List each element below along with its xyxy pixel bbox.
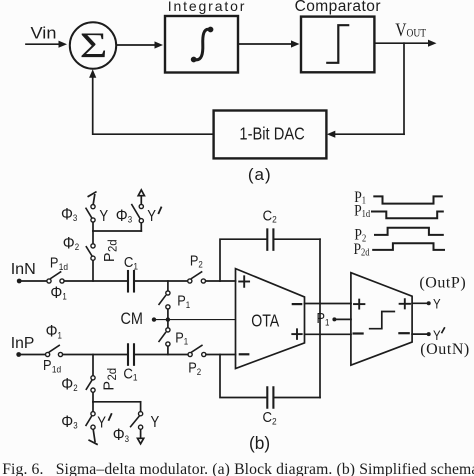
svg-text:Φ3: Φ3 xyxy=(61,205,78,223)
wire C1 to P2 top xyxy=(135,280,188,282)
waveform P2 xyxy=(375,228,443,235)
svg-text:Fig. 6. Sigma–delta modulato: Fig. 6. Sigma–delta modulator. (a) Block… xyxy=(2,461,474,476)
terminal Y bottom arrow down xyxy=(138,430,144,444)
comparator U4 body xyxy=(351,273,412,366)
switch phi3 top-right xyxy=(132,204,144,222)
arrowhead into sum node xyxy=(89,69,96,78)
label Y-prime top xyxy=(147,207,161,225)
OTA minus output mark xyxy=(293,303,301,305)
svg-text:InN: InN xyxy=(11,261,36,278)
OTA plus input mark xyxy=(239,276,249,287)
wire feedback top line xyxy=(220,239,320,281)
wire integrator to comparator arrow xyxy=(238,40,300,47)
wire switch to C1 top xyxy=(64,280,127,282)
wire sum to integrator arrow xyxy=(116,41,163,48)
svg-text:Φ1: Φ1 xyxy=(46,323,63,341)
terminal InN xyxy=(17,279,22,284)
integrator block U1 xyxy=(165,16,238,73)
OTA plus output mark xyxy=(292,329,301,339)
op-amp OTA body xyxy=(236,269,305,369)
svg-text:Φ3: Φ3 xyxy=(61,413,78,431)
svg-text:P1: P1 xyxy=(317,310,330,327)
svg-text:P2d: P2d xyxy=(102,239,120,262)
wire DAC to sum node xyxy=(93,78,214,135)
wire junction horizontal bottom xyxy=(93,401,141,403)
terminal InP xyxy=(16,352,21,357)
capacitor C1 bottom xyxy=(128,344,134,365)
svg-text:C2: C2 xyxy=(263,206,277,224)
wire junction to phi3 bottom-left xyxy=(92,402,94,412)
svg-text:CM: CM xyxy=(121,310,143,328)
wire feedback vertical from Vout xyxy=(403,43,405,134)
svg-text:P1: P1 xyxy=(177,293,190,310)
wire junction to phi3 bottom-right xyxy=(140,402,142,412)
svg-text:VOUT: VOUT xyxy=(395,20,426,41)
svg-text:InP: InP xyxy=(11,335,35,352)
switch P1d top (phi1) xyxy=(47,272,64,283)
integral symbol xyxy=(191,27,214,63)
switch phi3 top-left xyxy=(86,205,95,223)
label Y-prime bottom xyxy=(97,414,111,432)
wire junction to phi3 left xyxy=(92,222,94,231)
svg-text:(b): (b) xyxy=(249,433,270,453)
svg-text:Y: Y xyxy=(97,415,106,432)
svg-text:Φ3: Φ3 xyxy=(113,426,130,444)
label Y-prime output xyxy=(433,328,444,343)
switch phi3 bottom-right xyxy=(131,412,143,430)
terminal Y-prime bottom tilted pin xyxy=(89,429,97,444)
switch P2 top xyxy=(188,272,206,283)
wire CM line xyxy=(154,319,236,321)
wire junction to phi3 right xyxy=(140,223,142,231)
svg-text:Φ2: Φ2 xyxy=(61,376,78,394)
wire InP to switch xyxy=(19,354,46,356)
svg-text:Φ1: Φ1 xyxy=(50,284,67,302)
junction dot CM node xyxy=(166,317,170,321)
wire output Y-prime with dot xyxy=(412,332,431,336)
svg-text:P2d: P2d xyxy=(101,368,119,391)
svg-text:P1d: P1d xyxy=(50,255,68,272)
capacitor C2 top xyxy=(267,229,273,249)
wire branch up at node x93 xyxy=(92,260,94,281)
svg-text:C1: C1 xyxy=(123,364,137,382)
switch phi2 top (P2d) xyxy=(86,244,95,261)
svg-text:OTA: OTA xyxy=(251,312,279,331)
wire feedback into DAC arrow xyxy=(327,131,404,138)
wire feedback bottom line xyxy=(220,355,320,398)
svg-text:Y: Y xyxy=(433,297,441,312)
comparator minus input mark xyxy=(354,332,363,334)
svg-text:(a): (a) xyxy=(248,165,272,184)
waveform P2d xyxy=(373,243,444,250)
wire branch down at node x93 bottom xyxy=(92,355,94,376)
svg-text:(OutP): (OutP) xyxy=(419,275,466,292)
wire InN to switch P1d xyxy=(19,280,46,282)
svg-text:Integrator: Integrator xyxy=(168,0,246,14)
svg-text:C2: C2 xyxy=(263,408,277,426)
wire C1 to P2 bottom xyxy=(135,354,188,356)
terminal Y-prime arrow up xyxy=(138,190,144,204)
wire Vin input arrow xyxy=(26,41,67,48)
svg-text:P2: P2 xyxy=(190,253,203,270)
capacitor C2 bottom xyxy=(267,387,273,407)
wire junction horizontal top xyxy=(93,230,141,232)
switch P1 upper vertical xyxy=(159,281,170,320)
wire output Y with dot xyxy=(412,301,431,305)
wire P2 to OTA minus input xyxy=(206,354,235,356)
svg-text:P1d: P1d xyxy=(43,357,61,374)
wire switch to C1 bottom xyxy=(63,354,127,356)
terminal Y top tilted pin xyxy=(88,192,96,204)
svg-text:Y: Y xyxy=(147,208,156,225)
svg-text:P1: P1 xyxy=(175,330,188,347)
DAC block U3 xyxy=(214,111,327,159)
svg-text:P2: P2 xyxy=(188,360,201,377)
wire P1 to comparator xyxy=(334,318,351,320)
waveform P1d xyxy=(372,212,443,219)
svg-text:C1: C1 xyxy=(124,253,138,271)
terminal P1 dot xyxy=(332,317,336,321)
wire OTA minus output to comparator xyxy=(305,303,352,305)
switch P2 bottom xyxy=(188,345,206,356)
waveform P1 xyxy=(374,196,442,203)
svg-text:Y: Y xyxy=(99,208,108,225)
svg-text:(OutN): (OutN) xyxy=(420,341,470,358)
comparator block U2 xyxy=(301,17,374,73)
comparator plus output mark xyxy=(400,299,410,308)
svg-text:Φ2: Φ2 xyxy=(63,235,80,253)
svg-text:Y: Y xyxy=(151,414,160,431)
svg-text:Vin: Vin xyxy=(31,23,57,42)
summing node S1 xyxy=(70,22,116,68)
switch phi3 bottom-left xyxy=(86,412,95,430)
switch P1 lower vertical xyxy=(159,320,170,355)
wire phi2 to junction xyxy=(92,231,94,244)
comparator step symbol xyxy=(327,25,348,63)
switch P1d bottom (phi1) xyxy=(46,345,63,356)
svg-text:Comparator: Comparator xyxy=(295,0,381,15)
switch phi2 bottom (P2d) xyxy=(86,376,95,393)
wire OTA plus output to comparator xyxy=(305,333,352,335)
wire feedback right vertical xyxy=(319,239,321,397)
wire phi2 to junction bottom xyxy=(92,392,94,401)
comparator step symbol xyxy=(370,312,395,329)
comparator minus output mark xyxy=(399,332,408,334)
terminal CM dot xyxy=(152,317,156,321)
capacitor C1 top xyxy=(128,271,134,292)
svg-text:1-Bit DAC: 1-Bit DAC xyxy=(239,124,305,143)
OTA minus input mark xyxy=(240,353,249,355)
svg-text:Σ: Σ xyxy=(80,26,108,66)
comparator plus input mark xyxy=(354,300,364,309)
wire P2 to OTA plus input xyxy=(206,280,236,282)
svg-text:Φ3: Φ3 xyxy=(116,207,133,225)
wire Vout output arrow xyxy=(374,40,436,47)
